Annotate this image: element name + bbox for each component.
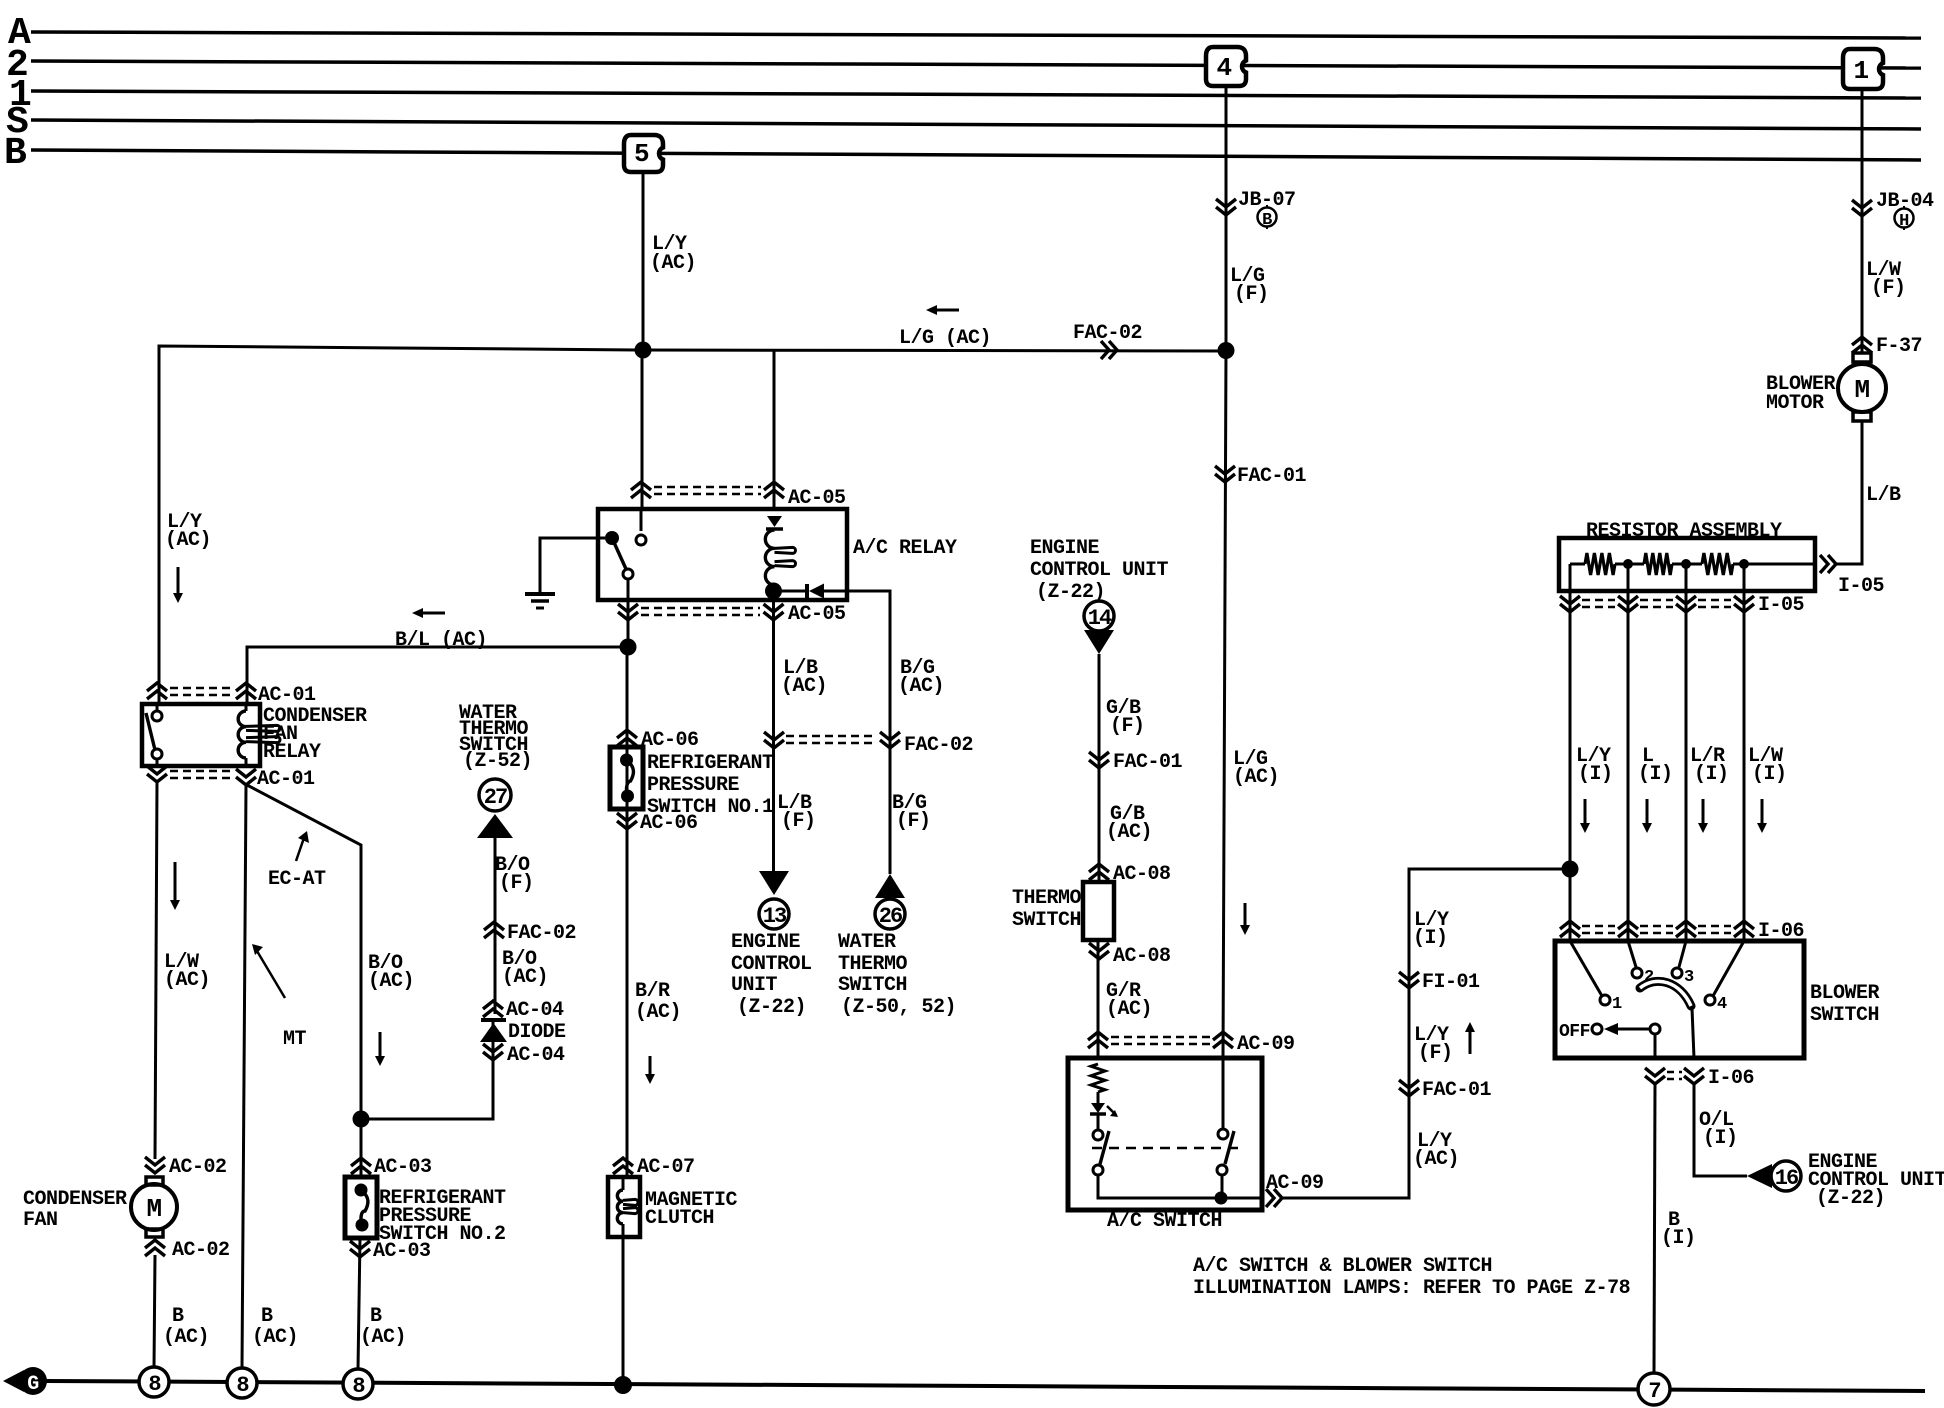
label B (AC) 3 (360, 1305, 406, 1349)
connector FAC-01 on G/B (1089, 751, 1183, 774)
connector AC-02 upper (145, 1156, 227, 1179)
label L/Y (F) (1414, 1024, 1453, 1065)
connector 4 (1206, 47, 1246, 86)
circled letter H (1895, 206, 1914, 231)
label L/G (AC) right column (1233, 748, 1279, 789)
triangle from ECU 14 (1084, 630, 1114, 654)
connector AC-09 output (1266, 1172, 1324, 1207)
svg-text:THERMO: THERMO (1012, 887, 1082, 910)
label ENGINE CONTROL UNIT (Z-22) at 14 (1030, 537, 1169, 604)
svg-text:AC-05: AC-05 (788, 487, 846, 510)
a/c switch coupling dashed (1092, 1147, 1240, 1150)
label MT (283, 1028, 307, 1051)
connector JB-04 (1852, 190, 1934, 216)
label B/O (AC) right (502, 948, 548, 989)
svg-text:L/B: L/B (1866, 484, 1901, 507)
label B/G (AC) (898, 657, 944, 698)
svg-text:B: B (4, 132, 26, 175)
label B/O (F) (495, 854, 534, 895)
circled 16 engine control unit (1771, 1161, 1801, 1191)
connector FAC-02 horizontal (1073, 322, 1142, 359)
svg-text:FAC-02: FAC-02 (507, 922, 576, 945)
a/c relay box (598, 509, 847, 600)
svg-text:EC-AT: EC-AT (268, 868, 326, 891)
svg-text:(I): (I) (1752, 763, 1787, 786)
svg-text:(I): (I) (1661, 1227, 1696, 1250)
a/c switch contact right (1217, 1058, 1234, 1175)
svg-text:16: 16 (1775, 1166, 1798, 1191)
svg-text:(AC): (AC) (781, 675, 827, 698)
wire L/G from connector 4 (1223, 86, 1226, 1058)
connector AC-06 lower (617, 812, 698, 835)
svg-text:13: 13 (763, 904, 787, 929)
svg-text:(F): (F) (499, 872, 534, 895)
svg-text:7: 7 (1648, 1379, 1660, 1404)
wire wiper output (1692, 1008, 1694, 1058)
label ENGINE CONTROL UNIT (Z-22) at 13 (731, 931, 812, 1019)
wire B/L (247, 647, 628, 704)
connector AC-03 lower (350, 1240, 431, 1263)
connector F-37 (1852, 335, 1922, 358)
bus wire A (31, 32, 1921, 38)
circled 26 water thermo switch (875, 899, 905, 929)
svg-text:FAC-01: FAC-01 (1113, 751, 1183, 774)
svg-text:M: M (1854, 375, 1869, 405)
node junction L/Y blower (1562, 861, 1579, 878)
svg-text:8: 8 (148, 1372, 161, 1397)
a/c relay switch (605, 531, 646, 579)
svg-text:(AC): (AC) (368, 970, 414, 993)
ground bus wire (46, 1381, 1925, 1391)
refrigerant pressure switch no.1 (610, 747, 643, 809)
svg-text:AC-09: AC-09 (1237, 1033, 1295, 1056)
svg-text:RELAY: RELAY (263, 741, 321, 764)
svg-text:(I): (I) (1413, 927, 1448, 950)
bus label 1 (9, 74, 31, 117)
arrow down B/R (645, 1056, 655, 1084)
svg-text:B: B (370, 1305, 382, 1328)
label MAGNETIC CLUTCH (645, 1189, 738, 1230)
wire B/R (626, 647, 629, 1177)
circled 13 engine control unit (759, 899, 789, 929)
ground circle 8a (139, 1367, 169, 1397)
condenser fan motor M2 (131, 1177, 177, 1237)
ground symbol G (3, 1367, 47, 1396)
node junction at connector 5 wire (635, 342, 652, 359)
svg-text:PRESSURE: PRESSURE (647, 774, 740, 797)
svg-text:(I): (I) (1703, 1127, 1738, 1150)
diode D2 (480, 1020, 507, 1042)
svg-text:(F): (F) (1110, 715, 1145, 738)
svg-text:I-05: I-05 (1758, 594, 1804, 617)
note illumination lamps (1193, 1255, 1630, 1300)
arrow down L/G (1240, 903, 1250, 935)
connector AC-05 lower (618, 603, 846, 626)
label B (AC) 2 (252, 1305, 298, 1349)
ground circle 8c (343, 1369, 373, 1399)
connector I-06 upper (1560, 920, 1804, 943)
blower switch terminal 4 (1705, 941, 1744, 1014)
label G/R (AC) (1106, 980, 1152, 1021)
wire MT branch (242, 785, 246, 1368)
svg-text:I-06: I-06 (1708, 1067, 1754, 1090)
wire L/Y into relay (641, 350, 644, 509)
label L/Y (I) return (1413, 909, 1449, 950)
connector FI-01 (1399, 971, 1480, 994)
a/c switch lamp resistor (1091, 1064, 1105, 1092)
label L/Y (AC) left (165, 511, 211, 552)
resistor R1 (1585, 553, 1615, 575)
svg-text:(AC): (AC) (650, 252, 696, 275)
svg-text:SWITCH: SWITCH (838, 974, 907, 997)
label CONDENSER FAN RELAY (263, 705, 367, 764)
svg-text:AC-08: AC-08 (1113, 945, 1171, 968)
svg-text:B/L (AC): B/L (AC) (395, 629, 487, 652)
svg-text:(Z-52): (Z-52) (463, 750, 532, 773)
connector AC-01 lower (147, 766, 315, 791)
svg-text:THERMO: THERMO (838, 953, 908, 976)
wire relay switch output (627, 579, 630, 647)
a/c switch indicator lamp (1090, 1103, 1118, 1117)
label G/B (F) (1106, 697, 1145, 738)
label L/G (AC) (899, 327, 991, 350)
arrow left on L/G (926, 305, 959, 315)
svg-text:(F): (F) (1418, 1042, 1453, 1065)
connector AC-08 upper (1089, 863, 1171, 886)
label BLOWER MOTOR (1766, 373, 1836, 415)
svg-text:26: 26 (879, 904, 902, 929)
wire L/B to ECU 13 (772, 598, 775, 871)
connector AC-03 upper (351, 1156, 432, 1179)
condenser relay switch (146, 711, 162, 759)
bus wire 2 (31, 61, 1921, 68)
thermo switch box (1083, 882, 1114, 940)
svg-text:CONTROL: CONTROL (731, 953, 812, 976)
triangle to water thermo switch (477, 814, 513, 838)
a/c relay coil (765, 530, 795, 585)
a/c switch box (1068, 1058, 1262, 1210)
svg-text:ENGINE: ENGINE (731, 931, 801, 954)
svg-text:(AC): (AC) (635, 1001, 681, 1024)
bus label A (8, 12, 31, 55)
label BLOWER SWITCH (1810, 982, 1880, 1027)
svg-text:AC-03: AC-03 (374, 1156, 432, 1179)
label L/Y (I) (1576, 745, 1613, 786)
wire L/W from connector 1 (1861, 89, 1864, 353)
blower switch terminal 1 (1570, 941, 1622, 1014)
svg-text:A/C SWITCH & BLOWER SWITCH: A/C SWITCH & BLOWER SWITCH (1193, 1255, 1492, 1278)
svg-text:AC-04: AC-04 (506, 999, 564, 1022)
svg-text:(AC): (AC) (1413, 1148, 1459, 1171)
svg-text:ENGINE: ENGINE (1030, 537, 1100, 560)
resistor R3 (1702, 553, 1733, 575)
svg-text:OFF: OFF (1559, 1022, 1590, 1042)
svg-text:(AC): (AC) (1106, 821, 1152, 844)
svg-text:AC-03: AC-03 (373, 1240, 431, 1263)
connector JB-07 (1216, 189, 1296, 215)
svg-text:FAN: FAN (23, 1209, 58, 1232)
svg-text:REFRIGERANT: REFRIGERANT (647, 752, 774, 775)
circled 27 water thermo switch (479, 779, 511, 811)
arrow left on B/L (412, 608, 445, 618)
svg-text:BLOWER: BLOWER (1810, 982, 1880, 1005)
label L/Y (AC) return (1413, 1130, 1459, 1171)
svg-text:AC-02: AC-02 (169, 1156, 227, 1179)
svg-text:ILLUMINATION LAMPS: REFER TO P: ILLUMINATION LAMPS: REFER TO PAGE Z-78 (1193, 1277, 1630, 1300)
svg-text:AC-04: AC-04 (507, 1044, 565, 1067)
wire G/R (1097, 940, 1100, 1058)
node junction diode branch (353, 1111, 370, 1128)
connector AC-04 lower (483, 1044, 565, 1067)
node resistor junction 2 (1681, 559, 1691, 569)
svg-text:1: 1 (1612, 995, 1622, 1014)
wire lamp to switch (1097, 1092, 1100, 1130)
label L/B (F) (777, 792, 816, 833)
a/c relay diode D1 (774, 584, 848, 599)
label B (I) (1661, 1209, 1696, 1250)
arrow down blower wire 3 (1698, 799, 1708, 833)
label EC-AT (268, 868, 326, 891)
svg-text:4: 4 (1216, 53, 1231, 83)
label DIODE (508, 1021, 566, 1044)
connector FAC-01 on L/G (1215, 465, 1307, 488)
svg-text:(AC): (AC) (360, 1326, 406, 1349)
ground circle 7 (1638, 1373, 1670, 1405)
svg-text:AC-06: AC-06 (640, 812, 698, 835)
svg-text:(I): (I) (1638, 763, 1673, 786)
svg-text:MT: MT (283, 1028, 307, 1051)
svg-text:CLUTCH: CLUTCH (645, 1207, 714, 1230)
ground symbol (525, 594, 555, 608)
triangle to ECU 16 (1747, 1164, 1772, 1188)
label O/L (I) (1699, 1109, 1738, 1150)
label L/Y (AC) (650, 233, 696, 275)
label REFRIGERANT PRESSURE SWITCH NO.2 (379, 1187, 506, 1246)
label B/O (AC) left (368, 952, 414, 993)
svg-text:(F): (F) (1871, 277, 1906, 300)
svg-text:CONDENSER: CONDENSER (23, 1188, 127, 1211)
svg-text:(Z-50, 52): (Z-50, 52) (841, 996, 956, 1019)
svg-text:DIODE: DIODE (508, 1021, 566, 1044)
wire OFF to ground (1654, 1034, 1657, 1058)
wire resistor drop 4 (1743, 564, 1746, 941)
node junction L/G (1218, 342, 1235, 359)
arrow down L/Y left (173, 567, 183, 603)
blower switch box (1555, 941, 1804, 1058)
label B (AC) 1 (163, 1305, 209, 1349)
svg-text:(AC): (AC) (164, 969, 210, 992)
svg-text:B: B (261, 1305, 273, 1328)
label THERMO SWITCH (1012, 887, 1082, 932)
wire clutch to ground (622, 1237, 625, 1385)
blower switch OFF contact (1559, 1022, 1660, 1042)
connector AC-05 upper (631, 482, 846, 510)
svg-text:B/R: B/R (635, 980, 670, 1003)
wire resistor drop 2 (1627, 564, 1630, 941)
wire relay switch terminal (640, 509, 643, 531)
blower switch terminal 3 (1672, 941, 1694, 987)
label L (I) (1638, 745, 1673, 786)
svg-text:FI-01: FI-01 (1422, 971, 1480, 994)
wire L/G horizontal (643, 350, 1226, 351)
svg-text:AC-01: AC-01 (258, 684, 316, 707)
node resistor junction 1 (1623, 559, 1633, 569)
svg-text:B: B (172, 1305, 184, 1328)
svg-text:F-37: F-37 (1876, 335, 1922, 358)
svg-text:8: 8 (352, 1374, 365, 1399)
wire L/Y from connector 5 (642, 172, 645, 350)
svg-text:WATER: WATER (838, 931, 896, 954)
connector I-05 lower (1560, 594, 1804, 617)
bus wire 1 (31, 91, 1921, 98)
wire relay terminal top (156, 704, 159, 712)
svg-text:AC-08: AC-08 (1113, 863, 1171, 886)
label A/C RELAY (853, 537, 957, 560)
connector AC-09 upper (1088, 1032, 1295, 1056)
connector FAC-01 on L/Y (1399, 1079, 1492, 1102)
svg-text:(I): (I) (1578, 763, 1613, 786)
node junction ground clutch (614, 1376, 632, 1394)
bus wire B (31, 150, 1921, 160)
arrow down B/O (375, 1032, 385, 1066)
label ENGINE CONTROL UNIT (Z-22) at 16 (1808, 1151, 1944, 1210)
wire EC-AT diagonal (247, 785, 361, 1177)
wire branch down to A/C relay coil (773, 350, 776, 509)
resistor assembly box (1559, 538, 1815, 591)
label G/B (AC) (1106, 803, 1152, 844)
connector AC-06 upper (617, 729, 699, 752)
arrow down blower wire 1 (1580, 799, 1590, 833)
wire B/G to WTS 26 (847, 591, 890, 874)
label REFRIGERANT PRESSURE SWITCH NO.1 (647, 752, 774, 819)
svg-text:(Z-22): (Z-22) (1816, 1187, 1885, 1210)
wire L/B blower motor to resistor (1836, 421, 1862, 564)
svg-text:AC-02: AC-02 (172, 1239, 230, 1262)
arrow up L/Y (1465, 1022, 1475, 1054)
svg-text:AC-07: AC-07 (637, 1156, 695, 1179)
wire O/L to ECU 16 (1694, 1084, 1747, 1176)
arrow EC-AT pointer (296, 831, 309, 861)
blower switch wiper arc (1640, 981, 1691, 1006)
svg-text:(F): (F) (896, 810, 931, 833)
svg-text:(AC): (AC) (898, 675, 944, 698)
label L/B (1866, 484, 1901, 507)
node relay coil junction (765, 583, 782, 600)
connector FAC-02 pair (764, 732, 973, 757)
arrow down blower wire 2 (1642, 799, 1652, 833)
svg-text:(F): (F) (1234, 283, 1269, 306)
label B/G (F) (892, 792, 931, 833)
svg-text:4: 4 (1717, 995, 1727, 1014)
svg-text:FAC-01: FAC-01 (1237, 465, 1307, 488)
label L/G (F) (1230, 265, 1269, 306)
label L/W (AC) (164, 951, 210, 992)
connector AC-04 upper (483, 999, 564, 1022)
svg-text:FAC-02: FAC-02 (1073, 322, 1142, 345)
a/c switch internal bus (1098, 1175, 1262, 1198)
connector I-05 right (1820, 555, 1884, 598)
svg-text:MOTOR: MOTOR (1766, 392, 1824, 415)
node a/c switch output (1215, 1192, 1228, 1205)
wire B to ground 1 (154, 1255, 155, 1368)
svg-text:FAC-02: FAC-02 (904, 734, 973, 757)
bus label B (4, 132, 26, 175)
label L/R (I) (1690, 745, 1729, 786)
svg-text:AC-09: AC-09 (1266, 1172, 1324, 1195)
label WATER THERMO SWITCH (Z-50,52) (838, 931, 956, 1019)
wire B/O from thermo switch (361, 838, 495, 1119)
svg-text:G: G (27, 1373, 39, 1396)
svg-text:(AC): (AC) (165, 529, 211, 552)
blower switch terminal 2 (1628, 941, 1654, 987)
resistor R2 (1644, 553, 1672, 575)
resistor chain wire (1570, 563, 1815, 566)
wire AC-09 to blower circuit (1282, 869, 1570, 1198)
svg-text:(I): (I) (1694, 763, 1729, 786)
svg-text:8: 8 (236, 1373, 249, 1398)
triangle to ECU 13 (759, 871, 789, 895)
label B/R (AC) (635, 980, 681, 1024)
circled 14 engine control unit (1084, 601, 1114, 631)
svg-text:(AC): (AC) (252, 1326, 298, 1349)
svg-text:(AC): (AC) (1233, 766, 1279, 789)
label CONDENSER FAN (23, 1188, 127, 1232)
svg-text:(AC): (AC) (502, 966, 548, 989)
svg-text:(AC): (AC) (1106, 998, 1152, 1021)
label B/L (AC) (395, 629, 487, 652)
svg-text:3: 3 (1684, 968, 1694, 987)
svg-text:A/C SWITCH: A/C SWITCH (1107, 1210, 1222, 1233)
svg-text:I-05: I-05 (1838, 575, 1884, 598)
bus label S (6, 101, 28, 144)
connector AC-08 lower (1089, 943, 1171, 968)
wire L/Y left run (159, 346, 643, 704)
connector 5 (624, 135, 663, 172)
bus label 2 (6, 44, 28, 87)
svg-text:(F): (F) (781, 810, 816, 833)
connector FAC-02 on B/O (484, 922, 576, 945)
arrow down L/W (170, 862, 180, 910)
connector AC-07 (613, 1156, 695, 1179)
circled letter B (1258, 205, 1277, 230)
node resistor junction 3 (1739, 559, 1749, 569)
label RESISTOR ASSEMBLY (1586, 520, 1782, 543)
wire resistor drop 3 (1685, 564, 1688, 941)
svg-text:UNIT: UNIT (731, 974, 778, 997)
svg-text:FAC-01: FAC-01 (1422, 1079, 1492, 1102)
wire B(I) to ground 7 (1654, 1084, 1655, 1373)
svg-text:27: 27 (484, 785, 507, 810)
ground circle 8b (227, 1368, 257, 1398)
blower motor M1 (1838, 353, 1886, 421)
wire G/B (1098, 654, 1101, 882)
wire L/W to condenser fan (155, 782, 157, 1159)
svg-text:(Z-22): (Z-22) (737, 996, 806, 1019)
node junction B/L (620, 639, 637, 656)
svg-text:M: M (146, 1194, 161, 1224)
a/c switch contact left (1093, 1130, 1109, 1175)
svg-text:(AC): (AC) (163, 1326, 209, 1349)
condenser fan relay box (142, 704, 260, 766)
label L/B (AC) (781, 657, 827, 698)
svg-text:14: 14 (1088, 606, 1112, 631)
svg-text:CONTROL UNIT: CONTROL UNIT (1030, 559, 1169, 582)
a/c relay coil diode (766, 516, 783, 529)
connector AC-01 upper (147, 683, 316, 707)
svg-text:1: 1 (1853, 56, 1868, 86)
label L/W (F) (1866, 259, 1906, 300)
ground stub wire (540, 538, 605, 592)
